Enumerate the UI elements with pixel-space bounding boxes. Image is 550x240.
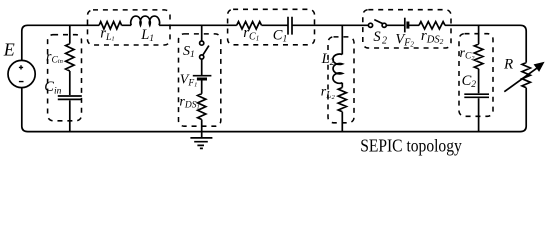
svg-text:E: E — [3, 40, 15, 60]
svg-text:C2: C2 — [462, 73, 477, 90]
svg-text:VF2: VF2 — [395, 31, 414, 48]
svg-text:rDS2: rDS2 — [421, 28, 444, 46]
svg-text:S2: S2 — [373, 29, 387, 46]
svg-text:C1: C1 — [273, 28, 287, 45]
svg-text:Cin: Cin — [44, 79, 61, 96]
svg-text:rDS1: rDS1 — [179, 95, 199, 111]
svg-text:rCin: rCin — [46, 49, 63, 65]
svg-text:L1: L1 — [140, 27, 154, 44]
svg-text:R: R — [503, 57, 513, 73]
svg-text:rC2: rC2 — [460, 46, 476, 62]
svg-text:rL1: rL1 — [100, 25, 114, 43]
svg-text:L2: L2 — [321, 51, 335, 68]
svg-text:SEPIC topology: SEPIC topology — [360, 136, 462, 156]
svg-text:S1: S1 — [183, 44, 195, 60]
